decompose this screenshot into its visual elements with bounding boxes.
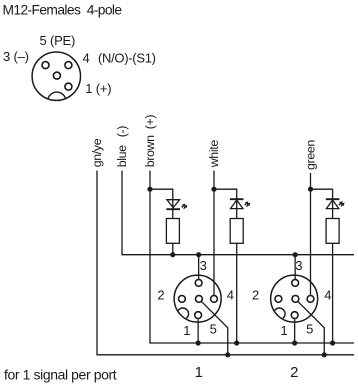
LED D1 (power indicator) — [167, 200, 180, 208]
wire R2 to plus rail — [236, 243, 238, 343]
wire brown (+) (plus rail) — [150, 171, 354, 344]
wire X1 pin 1 to plus rail — [197, 319, 199, 343]
X2 pin 4 (right) — [307, 296, 314, 303]
svg-text:3: 3 — [200, 258, 207, 273]
wire R1 to minus rail — [172, 243, 174, 254]
wire X2 pin 5 to PE rail (diagonal) — [298, 301, 324, 354]
X1 pin 2 (left) — [179, 296, 186, 303]
junction minus rail / X2 pin3 drop — [293, 252, 298, 257]
svg-text:3 (–): 3 (–) — [3, 49, 29, 64]
resistor R2 — [230, 219, 243, 244]
wire X2 pin 1 to plus rail — [294, 319, 296, 343]
LED D3 light arrows — [339, 201, 345, 206]
junction R2 / plus rail — [234, 340, 239, 345]
svg-text:1: 1 — [183, 323, 190, 338]
connector X1 (port 1) body — [174, 275, 221, 322]
svg-text:M12-Females 4-pole: M12-Females 4-pole — [3, 3, 123, 18]
X1 pin 3 (top) — [195, 280, 202, 287]
wire green (signal port 2) — [310, 173, 312, 295]
svg-text:1: 1 — [195, 364, 203, 381]
X1 pin 5 (center) — [196, 296, 203, 303]
junction minus rail / X1 pin3 drop — [196, 252, 201, 257]
M12 face pin 3 (center) — [53, 72, 60, 79]
connector X2 (port 2) body — [271, 275, 318, 322]
M12 face pin 1 (bottom-right) — [65, 83, 72, 90]
svg-text:white: white — [207, 140, 221, 169]
wire blue (-) (minus rail) — [122, 171, 354, 255]
M12 face pin 5 (top-left) — [42, 62, 49, 69]
svg-text:for 1 signal per port: for 1 signal per port — [4, 367, 117, 383]
junction R3 / plus rail — [330, 340, 335, 345]
wire white (signal port 1) — [213, 171, 215, 296]
svg-text:blue(-): blue(-) — [115, 126, 129, 168]
junction brown to LED1 branch — [147, 187, 152, 192]
svg-text:2: 2 — [157, 288, 164, 303]
wire X1 pin 5 to PE rail (diagonal) — [201, 301, 227, 354]
svg-text:(N/O)-(S1): (N/O)-(S1) — [98, 51, 156, 66]
svg-text:3: 3 — [295, 258, 302, 273]
X2 pin 3 (top) — [292, 280, 299, 287]
X1 pin 4 (right) — [211, 296, 218, 303]
wire minus rail to X1 pin 3 — [198, 255, 200, 280]
svg-text:4: 4 — [83, 51, 90, 66]
junction X2 pin1 / plus rail — [292, 340, 297, 345]
svg-text:gn/ye: gn/ye — [90, 138, 104, 167]
svg-text:2: 2 — [290, 364, 298, 381]
LED D2 (signal indicator port 1) — [230, 198, 244, 200]
M12 face pin 4 (top-right) — [65, 62, 72, 69]
svg-text:4: 4 — [324, 288, 331, 303]
LED D2 light arrows — [245, 201, 251, 206]
junction X2 pin5 / PE rail — [322, 352, 327, 357]
X2 pin 1 (bottom) — [291, 312, 298, 319]
svg-text:green: green — [304, 140, 318, 170]
wire gn/ye (PE rail) — [97, 171, 354, 355]
wire LED2 branch — [214, 189, 237, 218]
resistor R1 — [166, 219, 179, 244]
LED D1 light arrows — [182, 204, 188, 209]
X2 pin 5 (center) — [292, 296, 299, 303]
X1 pin 1 (bottom) — [195, 312, 202, 319]
wire minus rail to X2 pin 3 — [294, 255, 296, 280]
junction X1 pin1 / plus rail — [196, 340, 201, 345]
svg-text:5: 5 — [210, 322, 217, 337]
M12 female face view body circle — [32, 52, 80, 100]
junction green to LED3 branch — [308, 187, 313, 192]
wire R3 to plus rail — [332, 243, 334, 343]
svg-text:5: 5 — [306, 322, 313, 337]
svg-text:5 (PE): 5 (PE) — [40, 33, 76, 48]
junction R1 / minus rail — [170, 252, 175, 257]
junction X1 pin5 / PE rail — [225, 352, 230, 357]
svg-text:1 (+): 1 (+) — [85, 81, 111, 96]
svg-text:2: 2 — [252, 288, 259, 303]
resistor R3 — [326, 219, 339, 244]
wire LED1 branch — [150, 189, 173, 218]
svg-text:4: 4 — [227, 288, 234, 303]
junction white to LED2 branch — [211, 187, 216, 192]
wire LED3 branch — [311, 189, 333, 218]
svg-text:1: 1 — [281, 323, 288, 338]
svg-text:brown(+): brown(+) — [143, 115, 157, 168]
LED D3 (signal indicator port 2) — [326, 198, 340, 200]
X2 pin 2 (left) — [275, 296, 282, 303]
